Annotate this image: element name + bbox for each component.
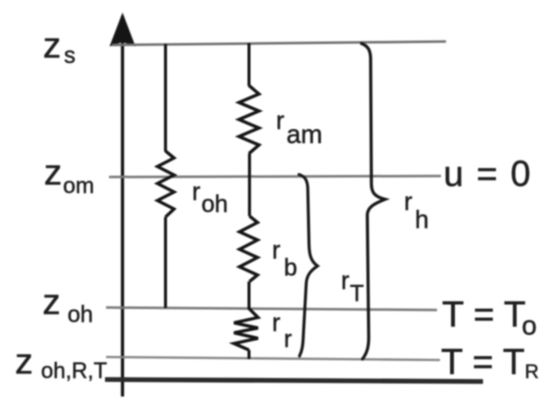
z_om level line [109,176,441,177]
svg-text:T = To: T = To [442,294,537,341]
wire from z_s down to resistor r_oh [164,44,167,152]
svg-text:ram: ram [276,107,322,149]
svg-text:rh: rh [404,188,429,234]
svg-text:T = TR: T = TR [441,341,539,383]
svg-text:rb: rb [272,237,297,282]
resistor r_oh [158,151,175,217]
svg-text:zoh,R,T: zoh,R,T [15,341,107,384]
z_oh,R,T level line [106,357,440,360]
svg-text:zs: zs [43,25,76,69]
brace r_T spanning z_om to z_oh,R,T [299,175,318,357]
wire from resistor r_oh down to z_oh [164,217,167,308]
wire from resistor r_am down to resistor r_b [248,154,251,217]
resistor r_b [240,216,258,282]
resistor r_r [234,308,258,350]
svg-text:zoh: zoh [43,281,94,327]
z_oh level line [106,308,437,311]
svg-text:rr: rr [272,309,292,353]
svg-text:roh: roh [192,178,228,218]
brace r_h spanning z_s to z_oh,R,T [362,44,386,360]
wire from resistor r_r down to z_oh,R,T [248,350,251,359]
svg-text:rT: rT [341,267,364,306]
svg-text:zom: zom [44,152,94,199]
wire from z_s down to resistor r_am [248,43,251,86]
svg-text:u = 0: u = 0 [444,153,533,194]
vertical height axis [110,13,136,397]
z_s level line [112,42,446,46]
wire from resistor r_b down to resistor r_r [248,282,251,310]
resistor r_am [239,86,259,154]
surface ground line [105,380,483,382]
